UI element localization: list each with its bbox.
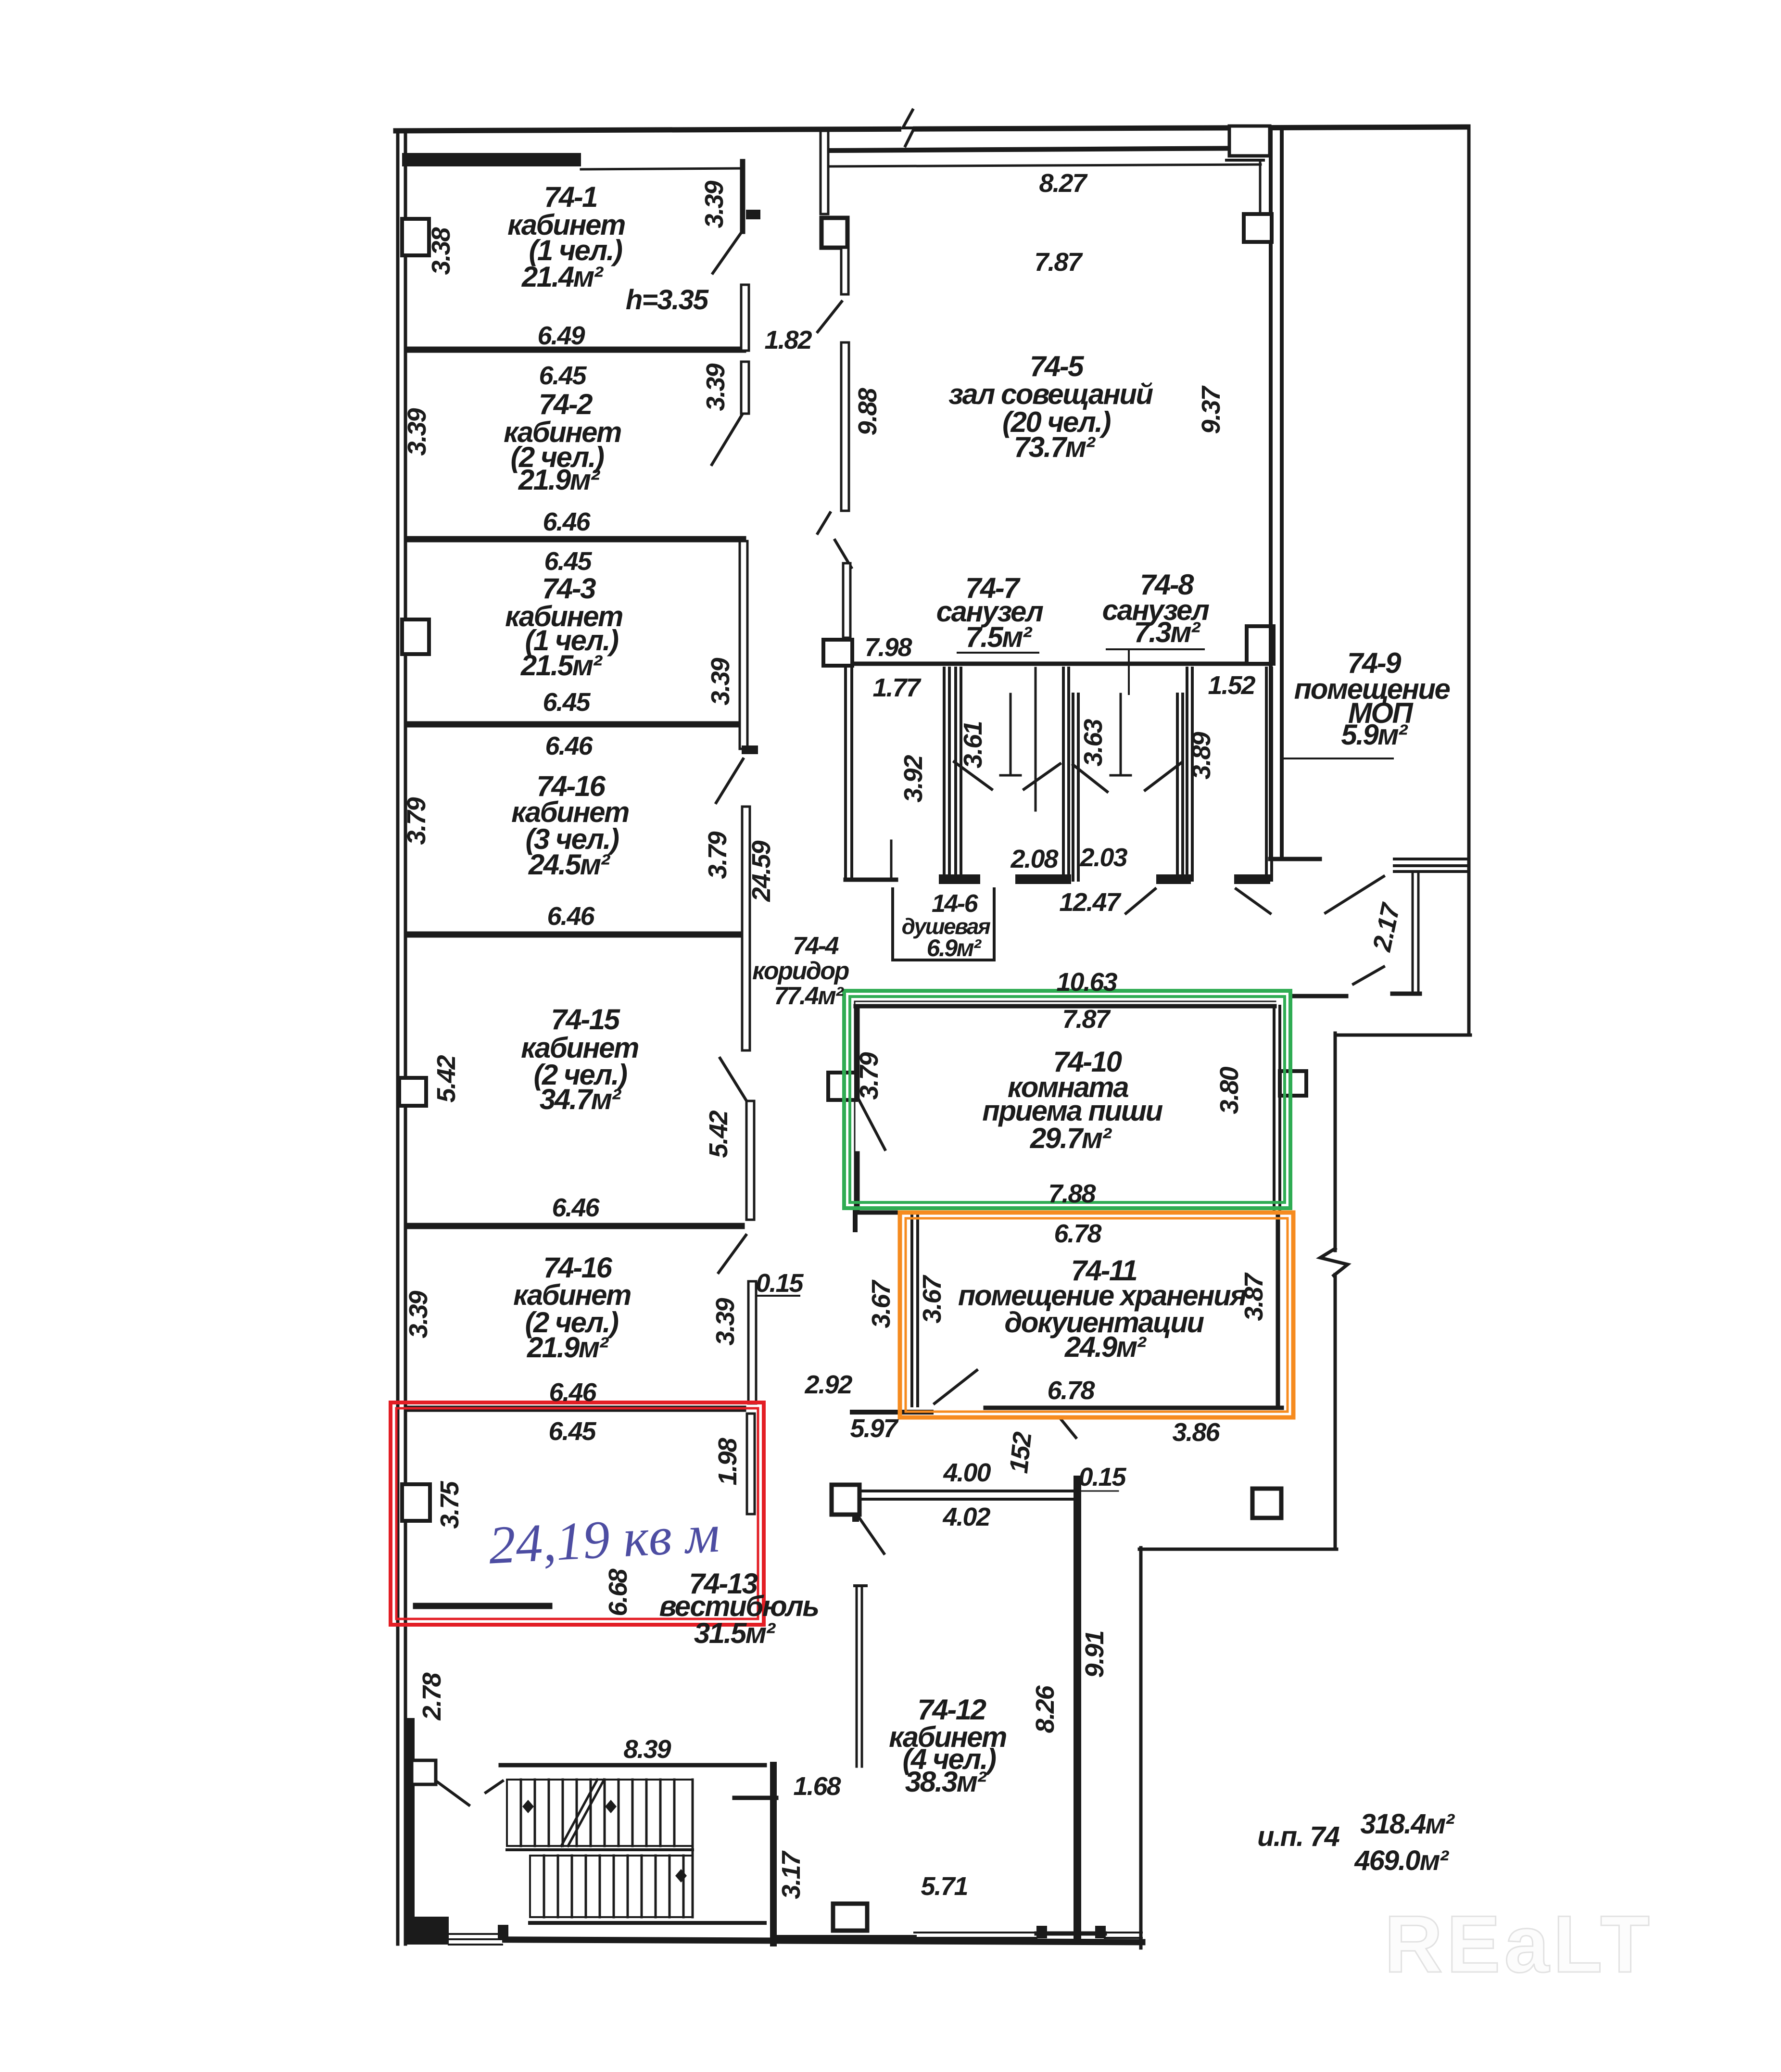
svg-text:8.27: 8.27 xyxy=(1039,169,1088,198)
svg-text:6.45: 6.45 xyxy=(539,361,587,390)
svg-text:3.17: 3.17 xyxy=(777,1850,806,1899)
svg-text:3.79: 3.79 xyxy=(402,797,431,845)
svg-text:3.39: 3.39 xyxy=(711,1298,740,1345)
svg-text:3.89: 3.89 xyxy=(1187,732,1216,779)
svg-text:21.4м²: 21.4м² xyxy=(521,261,604,293)
svg-text:h=3.35: h=3.35 xyxy=(626,284,709,316)
svg-text:1.82: 1.82 xyxy=(764,326,812,354)
svg-text:469.0м²: 469.0м² xyxy=(1354,1845,1449,1876)
svg-text:1.52: 1.52 xyxy=(1208,671,1255,700)
svg-text:74-4: 74-4 xyxy=(793,932,839,960)
svg-text:3.87: 3.87 xyxy=(1239,1272,1268,1321)
svg-text:0.15: 0.15 xyxy=(756,1269,804,1298)
svg-text:6.78: 6.78 xyxy=(1054,1219,1101,1248)
svg-text:коридор: коридор xyxy=(752,957,849,985)
svg-text:3.38: 3.38 xyxy=(427,227,455,275)
svg-text:3.63: 3.63 xyxy=(1079,719,1108,766)
svg-text:6.46: 6.46 xyxy=(543,507,591,536)
svg-text:5.97: 5.97 xyxy=(850,1414,899,1443)
svg-text:4.00: 4.00 xyxy=(943,1458,991,1487)
svg-text:и.п. 74: и.п. 74 xyxy=(1257,1821,1339,1852)
svg-text:73.7м²: 73.7м² xyxy=(1014,431,1096,463)
svg-text:2.08: 2.08 xyxy=(1010,845,1058,873)
svg-text:0.15: 0.15 xyxy=(1078,1463,1126,1491)
svg-text:2.78: 2.78 xyxy=(417,1672,446,1720)
svg-text:7.88: 7.88 xyxy=(1048,1179,1096,1208)
svg-text:2.92: 2.92 xyxy=(804,1370,852,1399)
svg-text:1.77: 1.77 xyxy=(872,673,922,702)
svg-text:6.49: 6.49 xyxy=(537,321,585,350)
svg-text:31.5м²: 31.5м² xyxy=(694,1617,776,1649)
svg-text:7.3м²: 7.3м² xyxy=(1134,616,1201,648)
svg-text:7.87: 7.87 xyxy=(1034,248,1083,277)
svg-text:3.67: 3.67 xyxy=(867,1279,896,1328)
svg-text:7.87: 7.87 xyxy=(1062,1005,1111,1034)
svg-text:7.98: 7.98 xyxy=(864,633,912,662)
svg-text:6.46: 6.46 xyxy=(549,1378,597,1407)
svg-text:34.7м²: 34.7м² xyxy=(540,1083,622,1115)
svg-text:7.5м²: 7.5м² xyxy=(965,621,1033,653)
svg-text:3.39: 3.39 xyxy=(404,1290,433,1338)
svg-text:8.39: 8.39 xyxy=(623,1735,671,1764)
svg-text:зал совещаний: зал совещаний xyxy=(948,378,1153,410)
svg-text:9.91: 9.91 xyxy=(1080,1631,1109,1678)
svg-text:24.9м²: 24.9м² xyxy=(1064,1331,1147,1363)
svg-text:6.68: 6.68 xyxy=(604,1568,632,1616)
svg-text:38.3м²: 38.3м² xyxy=(905,1766,987,1798)
svg-text:6.78: 6.78 xyxy=(1047,1376,1095,1405)
svg-text:3.39: 3.39 xyxy=(700,180,729,228)
svg-text:6.45: 6.45 xyxy=(543,688,591,717)
svg-text:3.80: 3.80 xyxy=(1215,1066,1244,1114)
svg-text:3.79: 3.79 xyxy=(855,1052,884,1099)
svg-text:24.59: 24.59 xyxy=(747,840,776,902)
svg-text:3.92: 3.92 xyxy=(899,755,928,802)
svg-text:REaLT: REaLT xyxy=(1384,1899,1654,1989)
svg-text:5.42: 5.42 xyxy=(704,1110,733,1158)
svg-text:10.63: 10.63 xyxy=(1056,968,1117,997)
svg-text:3.75: 3.75 xyxy=(435,1480,464,1529)
svg-text:12.47: 12.47 xyxy=(1059,888,1122,917)
svg-text:152: 152 xyxy=(1004,1430,1037,1475)
svg-text:6.46: 6.46 xyxy=(545,732,593,760)
svg-text:74-5: 74-5 xyxy=(1030,350,1085,382)
svg-text:74-3: 74-3 xyxy=(542,572,596,605)
svg-text:74-15: 74-15 xyxy=(551,1003,621,1036)
svg-text:24.5м²: 24.5м² xyxy=(528,848,611,881)
svg-text:1.98: 1.98 xyxy=(713,1438,742,1485)
svg-text:5.42: 5.42 xyxy=(432,1055,461,1102)
svg-text:3.39: 3.39 xyxy=(701,363,730,411)
svg-text:318.4м²: 318.4м² xyxy=(1360,1808,1455,1840)
svg-text:6.46: 6.46 xyxy=(547,902,595,931)
svg-text:21.5м²: 21.5м² xyxy=(520,649,603,682)
svg-text:21.9м²: 21.9м² xyxy=(518,464,601,496)
svg-text:8.26: 8.26 xyxy=(1031,1685,1060,1733)
svg-text:74-1: 74-1 xyxy=(544,181,597,213)
svg-text:3.79: 3.79 xyxy=(703,831,732,879)
svg-text:3.67: 3.67 xyxy=(918,1274,947,1323)
svg-text:29.7м²: 29.7м² xyxy=(1030,1122,1112,1154)
svg-text:9.88: 9.88 xyxy=(853,388,882,435)
svg-text:6.46: 6.46 xyxy=(552,1193,600,1222)
svg-text:6.9м²: 6.9м² xyxy=(927,935,982,961)
svg-text:4.02: 4.02 xyxy=(942,1503,990,1531)
svg-text:77.4м²: 77.4м² xyxy=(774,982,844,1010)
svg-text:1.68: 1.68 xyxy=(793,1772,841,1801)
svg-text:2.03: 2.03 xyxy=(1079,843,1127,872)
svg-text:3.39: 3.39 xyxy=(403,408,431,455)
svg-text:5.71: 5.71 xyxy=(921,1872,967,1901)
svg-text:9.37: 9.37 xyxy=(1197,385,1225,434)
svg-text:3.39: 3.39 xyxy=(706,657,735,705)
svg-text:6.45: 6.45 xyxy=(548,1417,596,1446)
svg-text:3.86: 3.86 xyxy=(1172,1418,1220,1447)
svg-text:6.45: 6.45 xyxy=(544,547,592,576)
svg-text:74-2: 74-2 xyxy=(539,388,593,420)
svg-text:3.61: 3.61 xyxy=(959,721,987,768)
svg-text:24,19 кв м: 24,19 кв м xyxy=(487,1504,721,1576)
svg-text:5.9м²: 5.9м² xyxy=(1341,719,1408,751)
svg-text:21.9м²: 21.9м² xyxy=(527,1331,609,1364)
